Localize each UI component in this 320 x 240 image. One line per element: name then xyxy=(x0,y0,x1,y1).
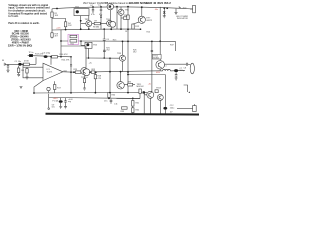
vertical mid xyxy=(109,58,111,92)
capacitor C7 xyxy=(174,69,178,72)
label box TR12 xyxy=(153,54,162,59)
connector SK3 xyxy=(193,106,197,112)
transistor TR6b xyxy=(110,21,116,27)
bottom 0V rail xyxy=(46,113,200,116)
capacitor C5 xyxy=(100,7,102,14)
capacitor C12 xyxy=(163,107,167,110)
red label xyxy=(53,98,59,100)
+40v label xyxy=(182,7,188,9)
resistor R21 xyxy=(70,40,77,43)
red note a xyxy=(56,27,62,29)
transistor TR14 xyxy=(157,94,163,100)
ground xyxy=(64,107,67,109)
transistor TR11 xyxy=(117,82,124,89)
junction dot xyxy=(80,20,82,22)
resistor R22 xyxy=(26,69,28,73)
resistor R29 xyxy=(128,83,133,86)
capacitor C4 xyxy=(92,7,94,14)
ground xyxy=(17,74,20,76)
svg-text:F1 3A: F1 3A xyxy=(53,100,59,103)
ground xyxy=(7,70,10,72)
svg-text:470K: 470K xyxy=(24,60,29,62)
svg-text:100u: 100u xyxy=(170,107,174,109)
resistor R32 xyxy=(132,108,134,113)
transistor TR3 xyxy=(107,3,113,9)
mid rail xyxy=(34,91,147,94)
diode D2 xyxy=(100,16,102,18)
capacitor C9 xyxy=(59,100,63,103)
svg-text:220R = 1/2W 5% (MO): 220R = 1/2W 5% (MO) xyxy=(8,44,32,47)
resistor R19 xyxy=(29,54,32,56)
wire to -input xyxy=(23,66,43,68)
transistor TR10 xyxy=(83,69,90,76)
svg-text:TL071: TL071 xyxy=(47,71,54,73)
psu rail xyxy=(49,97,140,100)
wire xyxy=(61,30,86,57)
resistor R17 xyxy=(54,85,56,90)
svg-text:+3v: +3v xyxy=(148,84,151,86)
resistor R14 xyxy=(23,63,29,66)
svg-text:BOARD NUMBER 40 4521 ISS 2: BOARD NUMBER 40 4521 ISS 2 xyxy=(129,1,171,5)
capacitor C2 input xyxy=(18,63,22,66)
output jack xyxy=(190,63,194,74)
capacitor C8 xyxy=(186,63,187,66)
capacitor C2 xyxy=(44,55,48,58)
wire xyxy=(128,75,165,107)
svg-text:to 5 volt.: to 5 volt. xyxy=(8,15,18,18)
pink highlight box xyxy=(68,35,79,45)
transistor TR8 xyxy=(120,55,126,61)
ground xyxy=(20,87,23,89)
capacitor C11 xyxy=(110,99,113,104)
ground xyxy=(26,77,29,79)
wire to SK3 xyxy=(177,108,193,110)
resistor R9 xyxy=(123,17,127,20)
ground xyxy=(175,12,178,14)
wire V1 xyxy=(51,9,53,30)
wire from TR2 down xyxy=(80,16,82,30)
inductor L1 xyxy=(163,69,171,71)
top +40V rail xyxy=(52,7,193,9)
long vertical feedback xyxy=(70,57,72,93)
svg-text:2K2: 2K2 xyxy=(133,52,136,54)
capacitor C13 xyxy=(103,50,106,51)
svg-text:15n: 15n xyxy=(104,101,107,103)
svg-text:R25: R25 xyxy=(113,40,116,42)
red note xyxy=(156,72,161,74)
transistor TR13 xyxy=(147,91,154,98)
resistor R4 xyxy=(64,22,66,27)
note paragraph xyxy=(8,4,50,25)
upper output transistor TR12 xyxy=(156,61,165,70)
wire to +input xyxy=(23,64,43,78)
svg-text:Parts R in relation to earth.: Parts R in relation to earth. xyxy=(8,22,39,25)
feedback rail xyxy=(28,56,71,57)
resistor R30 xyxy=(108,93,110,98)
wire to ground xyxy=(84,75,86,88)
ground xyxy=(163,16,166,18)
diode D3 xyxy=(163,8,165,11)
resistor R1 xyxy=(51,12,53,18)
red note b xyxy=(155,9,158,11)
driver rail xyxy=(86,57,120,59)
psu vertical xyxy=(48,94,50,108)
svg-text:C1 10u: C1 10u xyxy=(15,61,23,63)
second rail xyxy=(52,28,141,31)
wire TR3 to TR6 xyxy=(109,10,111,21)
svg-text:22K: 22K xyxy=(68,25,72,27)
svg-text:+4v: +4v xyxy=(89,63,92,65)
box TR4 xyxy=(85,42,92,48)
wire vertical xyxy=(143,93,145,114)
svg-text:INDICATOR: INDICATOR xyxy=(177,17,188,20)
transistor TR5 xyxy=(118,9,124,15)
connector PL1 xyxy=(193,5,196,12)
resistor R13 xyxy=(52,56,58,58)
junction dots on rails xyxy=(56,8,58,10)
svg-text:40v: 40v xyxy=(155,9,158,11)
connector SK2 xyxy=(184,85,188,92)
input socket xyxy=(4,63,8,66)
red note c xyxy=(148,84,151,86)
wire LED branch xyxy=(175,9,177,13)
capacitor C6 xyxy=(103,29,106,58)
svg-text:TP 0v: TP 0v xyxy=(29,52,34,54)
svg-text:R24 47K: R24 47K xyxy=(62,60,70,62)
svg-text:40872: 40872 xyxy=(146,20,153,22)
ground xyxy=(175,78,178,80)
svg-text:10K: 10K xyxy=(55,15,59,17)
capacitor C14 xyxy=(151,51,153,52)
transistor TR7 xyxy=(138,16,145,23)
wire xyxy=(35,57,37,64)
wire output xyxy=(63,71,75,73)
wire below rail2 x52 xyxy=(51,30,53,39)
resistor R34 xyxy=(155,90,158,93)
svg-text:0.1u: 0.1u xyxy=(91,14,95,16)
box TR2 xyxy=(74,9,89,16)
svg-text:MJ4502: MJ4502 xyxy=(137,86,145,88)
capacitor C10 xyxy=(64,98,67,107)
svg-text:C3 120p: C3 120p xyxy=(42,53,51,55)
resistor R12 xyxy=(132,24,134,29)
resistor R20 xyxy=(70,35,77,38)
resistor R27 xyxy=(91,71,94,74)
resistor R31 xyxy=(132,101,134,107)
resistor R23 xyxy=(75,71,81,74)
resistor R7 xyxy=(94,22,100,24)
resistor R26 xyxy=(83,79,85,83)
svg-text:R8 680: R8 680 xyxy=(93,27,99,29)
resistor R35 xyxy=(139,89,141,94)
test point TP2 xyxy=(47,87,50,90)
collector vertical from rail3 xyxy=(150,41,152,91)
svg-text:link: link xyxy=(52,107,55,109)
wire xyxy=(160,41,175,51)
resistor R33 xyxy=(122,107,128,109)
svg-text:L1: L1 xyxy=(165,66,167,68)
output stage wire xyxy=(75,71,160,72)
resistor R11 xyxy=(127,15,129,20)
capacitor C1 xyxy=(7,64,9,70)
svg-text:reg: reg xyxy=(68,101,71,103)
svg-text:R14: R14 xyxy=(147,31,150,33)
svg-text:2K2: 2K2 xyxy=(106,50,109,52)
svg-text:4K7: 4K7 xyxy=(55,36,58,38)
svg-text:MJ802: MJ802 xyxy=(153,58,159,60)
transistor TR9 xyxy=(81,68,88,75)
diode D4 xyxy=(143,91,146,93)
dark circle inside TR2 xyxy=(76,10,79,13)
resistor R18 xyxy=(51,33,53,37)
output wire to jack xyxy=(165,63,191,65)
long vertical xyxy=(127,7,129,93)
ground xyxy=(83,88,86,90)
ground xyxy=(59,107,62,109)
resistor R15 xyxy=(17,68,19,73)
title text xyxy=(83,1,171,5)
svg-text:1M: 1M xyxy=(21,70,24,72)
arrow to rail xyxy=(179,7,181,8)
input wire xyxy=(8,63,36,65)
transistor TR1 xyxy=(86,21,92,27)
parts list xyxy=(8,30,32,47)
op-amp IC1 xyxy=(43,63,63,80)
plus mark xyxy=(189,92,190,93)
resistor R28 xyxy=(94,75,96,79)
junction dot xyxy=(166,7,168,9)
wire xyxy=(117,93,141,99)
wire rail3 xyxy=(61,40,160,42)
connector tick xyxy=(48,108,50,110)
transistor TR6 xyxy=(107,20,113,26)
inverting wire xyxy=(34,81,43,93)
